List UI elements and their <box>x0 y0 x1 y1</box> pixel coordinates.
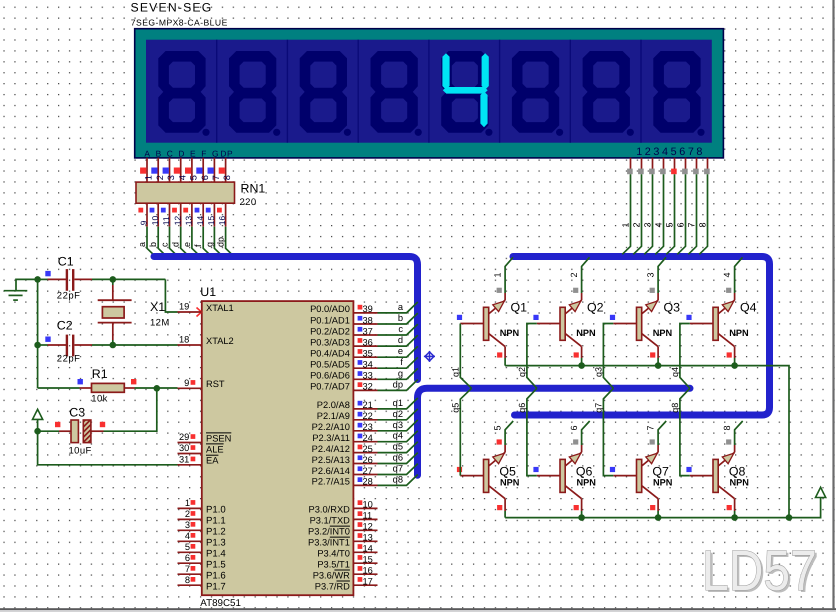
svg-text:C2: C2 <box>57 318 73 332</box>
transistor Q2 body bar <box>560 307 565 340</box>
transistor Q2 emitter arrow <box>569 301 581 312</box>
svg-text:ABCDEFG: ABCDEFG <box>144 148 224 158</box>
svg-text:P3.1/TXD: P3.1/TXD <box>310 516 351 526</box>
svg-text:31: 31 <box>179 454 189 464</box>
transistor Q5 emitter <box>489 452 505 466</box>
transistor Q7 emitter state marker <box>650 439 655 444</box>
transistor Q6 collector wire to rail <box>581 499 583 511</box>
wire net q4 from bus to Q4 base <box>680 324 690 389</box>
svg-text:P3.3/INT1: P3.3/INT1 <box>308 538 350 548</box>
wire net q3 from pin 23 to bus <box>378 420 418 431</box>
svg-text:10k: 10k <box>91 393 108 404</box>
svg-text:NPN: NPN <box>500 328 520 338</box>
svg-text:4: 4 <box>654 222 664 227</box>
transistor Q2 base state marker <box>533 315 538 320</box>
transistor Q2 collector wire to rail <box>581 347 583 358</box>
wire net 4 from display pin to bus <box>655 174 663 254</box>
transistor Q8 collector state marker <box>727 505 732 510</box>
svg-text:15: 15 <box>363 555 373 565</box>
svg-text:P0.4/AD4: P0.4/AD4 <box>310 349 350 359</box>
mcu U1 pin 7 P1.6 stub <box>178 573 202 575</box>
display digit pin 6 stub <box>685 158 687 169</box>
transistor Q7 emitter arrow <box>646 453 658 464</box>
wire net q3 from bus to Q3 base <box>603 324 613 389</box>
svg-text:36: 36 <box>363 337 373 347</box>
svg-text:10: 10 <box>150 216 160 226</box>
svg-text:6: 6 <box>185 553 190 563</box>
RN1 pin 12 state marker <box>172 208 177 213</box>
svg-text:Q6: Q6 <box>576 465 593 479</box>
wire net c from RN1 pin 11 to bus <box>170 227 178 256</box>
svg-text:Q7: Q7 <box>652 465 669 479</box>
wire net q2 from pin 22 to bus <box>378 409 418 420</box>
wire net q8 from bus to Q8 base <box>680 388 690 475</box>
transistor Q1 emitter state marker <box>497 288 502 293</box>
mcu U1 pin 26 state marker <box>358 455 363 460</box>
transistor Q5 body bar <box>484 459 489 492</box>
svg-text:14: 14 <box>195 216 205 226</box>
transistor Q1 base stub <box>460 323 483 325</box>
mcu U1 pin 19 XTAL1 stub <box>178 311 202 313</box>
mcu U1 pin 8 state marker <box>191 577 196 582</box>
wire power rail down to EA <box>38 431 178 465</box>
mcu U1 pin 2 P1.1 stub <box>178 518 202 520</box>
svg-text:5: 5 <box>185 542 190 552</box>
RN1 pin 4 state marker <box>174 168 180 174</box>
svg-text:q7: q7 <box>393 464 403 474</box>
mcu U1 pin 27 P2.6/A14 stub <box>353 474 377 476</box>
transistor Q8 emitter arrow <box>722 453 734 464</box>
junction Q4 collector <box>731 362 738 369</box>
transistor Q6 collector state marker <box>574 505 579 510</box>
wire net b from pin 38 to bus <box>378 313 418 324</box>
wire net dp from RN1 pin 16 to bus <box>226 227 234 256</box>
wire net c from pin 37 to bus <box>378 324 418 335</box>
power symbol VCC left <box>37 419 39 431</box>
display DS1 7SEG-MPX8-CA-BLUE body <box>135 29 724 158</box>
display digit pin 3 stub <box>652 158 654 169</box>
svg-text:LD57: LD57 <box>702 539 817 603</box>
svg-text:4: 4 <box>185 531 190 541</box>
mcu U1 pin 39 state marker <box>358 305 363 310</box>
bus digit-select 1-8 from display pins around to transistor emitters <box>513 257 770 416</box>
junction rail-rail <box>786 514 793 521</box>
mcu U1 pin 24 P2.3/A11 stub <box>353 441 377 443</box>
mcu U1 pin 28 state marker <box>358 477 363 482</box>
mcu U1 pin 4 state marker <box>191 533 196 538</box>
svg-text:P0.2/AD2: P0.2/AD2 <box>310 326 350 336</box>
display digit pin 2 stub <box>641 158 643 169</box>
svg-text:6: 6 <box>569 425 579 430</box>
svg-text:P2.4/A12: P2.4/A12 <box>312 444 350 454</box>
display digit 5 lit segment F <box>442 53 449 90</box>
wire net q7 from bus to Q7 base <box>603 388 613 475</box>
display segment pin F to RN1 pin 6 wire <box>202 158 204 183</box>
svg-text:RST: RST <box>206 379 225 389</box>
svg-text:8: 8 <box>722 425 732 430</box>
mcu U1 pin 34 state marker <box>358 360 363 365</box>
RN1 pin 2 state marker <box>151 168 157 174</box>
svg-text:b: b <box>148 242 158 247</box>
svg-text:24: 24 <box>363 433 373 443</box>
wire net q6 from bus to Q6 base <box>527 388 537 475</box>
display segment pin E to RN1 pin 5 wire <box>191 158 193 183</box>
RN1 pin 11 stub <box>169 203 171 226</box>
svg-text:22pF: 22pF <box>57 353 81 364</box>
wire net q6 from pin 26 to bus <box>378 453 418 464</box>
svg-text:7SEG-MPX8-CA-BLUE: 7SEG-MPX8-CA-BLUE <box>131 17 228 27</box>
display digit pin 5 stub <box>674 158 676 169</box>
wire net d from RN1 pin 12 to bus <box>181 227 189 256</box>
mcu U1 pin 37 state marker <box>358 327 363 332</box>
display digit pin 6 state marker <box>682 169 688 175</box>
display digit pin 2 state marker <box>638 169 644 175</box>
transistor Q8 base stub <box>690 475 713 477</box>
mcu U1 pin 28 P2.7/A15 stub <box>353 484 377 486</box>
mcu U1 pin 2 state marker <box>191 511 196 516</box>
svg-text:33: 33 <box>363 371 373 381</box>
transistor Q1 base state marker <box>457 315 462 320</box>
transistor Q3 emitter arrow <box>646 301 658 312</box>
transistor Q4 collector state marker <box>727 352 732 357</box>
svg-text:f: f <box>400 357 403 367</box>
mcu U1 pin 1 state marker <box>191 500 196 505</box>
transistor Q7 body bar <box>637 459 642 492</box>
transistor Q1 emitter wire to digit bus <box>504 293 506 300</box>
svg-text:Q8: Q8 <box>729 465 746 479</box>
wire net q8 from pin 28 to bus <box>378 475 418 486</box>
svg-text:P1.4: P1.4 <box>206 549 226 560</box>
mcu U1 pin 16 P3.6/WR stub <box>353 573 377 575</box>
mcu U1 pin 24 state marker <box>358 434 363 439</box>
display digit 7 unlit segments <box>583 51 634 136</box>
mcu U1 pin 38 state marker <box>358 316 363 321</box>
svg-text:12: 12 <box>172 216 182 226</box>
mcu U1 pin 26 P2.5/A13 stub <box>353 463 377 465</box>
svg-text:6: 6 <box>200 175 210 180</box>
svg-text:q2: q2 <box>517 367 527 377</box>
display digit 8 unlit segments <box>653 51 704 136</box>
RN1 pin 5 state marker <box>185 168 191 174</box>
svg-text:8: 8 <box>698 222 708 227</box>
transistor Q4 collector wire to rail <box>734 347 736 358</box>
svg-text:P0.3/AD3: P0.3/AD3 <box>310 337 350 347</box>
svg-text:d: d <box>171 242 181 247</box>
svg-text:P1.6: P1.6 <box>206 570 226 581</box>
mcu U1 pin 7 state marker <box>191 566 196 571</box>
wire collector rail bottom row to power <box>505 498 820 518</box>
mcu U1 pin 38 P0.1/AD1 stub <box>353 323 377 325</box>
mcu U1 pin 34 P0.5/AD5 stub <box>353 367 377 369</box>
svg-text:10uF: 10uF <box>69 446 92 457</box>
svg-text:ALE: ALE <box>206 444 224 454</box>
mcu U1 pin 15 state marker <box>358 555 363 560</box>
svg-text:16: 16 <box>217 216 227 226</box>
svg-text:2: 2 <box>185 509 190 519</box>
svg-text:P1.2: P1.2 <box>206 527 226 538</box>
mcu U1 pin 27 state marker <box>358 466 363 471</box>
mcu U1 pin 13 state marker <box>358 533 363 538</box>
transistor Q1 body bar <box>484 307 489 340</box>
svg-text:2: 2 <box>569 272 579 277</box>
display digit 5 lit segment G <box>443 87 488 94</box>
wire net q1 from pin 21 to bus <box>378 398 418 409</box>
wire RST junction down to C3 <box>104 388 157 431</box>
transistor Q2 emitter state marker <box>573 288 578 293</box>
svg-text:35: 35 <box>363 349 373 359</box>
svg-text:P3.2/INT0: P3.2/INT0 <box>308 527 350 537</box>
svg-text:P2.0/A8: P2.0/A8 <box>317 400 350 410</box>
display digit 1 unlit segments <box>158 51 209 136</box>
svg-text:P3.6/WR: P3.6/WR <box>313 570 350 580</box>
svg-text:30: 30 <box>179 443 189 453</box>
mcu U1 pin 9 state marker <box>191 380 196 385</box>
resistor R1 right state marker <box>131 379 136 384</box>
wire net q1 from bus to Q1 base <box>460 324 471 389</box>
svg-text:P3.7/RD: P3.7/RD <box>315 581 350 591</box>
junction Q2 collector <box>578 362 585 369</box>
mcu U1 pin 23 P2.2/A10 stub <box>353 430 377 432</box>
transistor Q4 emitter state marker <box>726 288 731 293</box>
svg-text:9: 9 <box>139 220 149 225</box>
transistor Q6 emitter <box>565 452 581 466</box>
svg-text:22pF: 22pF <box>57 291 81 302</box>
watermark LD57 <box>704 541 819 605</box>
svg-text:14: 14 <box>363 544 373 554</box>
RN1 pin 15 state marker <box>206 208 211 213</box>
transistor Q8 body bar <box>713 459 718 492</box>
mcu U1 pin 1 P1.0 stub <box>178 507 202 509</box>
svg-text:c: c <box>160 242 170 247</box>
mcu U1 pin 11 P3.1/TXD stub <box>353 518 377 520</box>
display segment pin A to RN1 pin 1 wire <box>146 158 148 183</box>
transistor Q4 collector <box>718 334 734 347</box>
svg-text:P1.3: P1.3 <box>206 538 226 549</box>
mcu U1 pin 25 P2.4/A12 stub <box>353 452 377 454</box>
svg-text:8: 8 <box>222 175 232 180</box>
svg-text:5: 5 <box>189 175 199 180</box>
mcu U1 pin 32 P0.7/AD7 stub <box>353 389 377 391</box>
mcu U1 pin 29 state marker <box>191 434 196 439</box>
svg-text:q6: q6 <box>393 453 403 463</box>
svg-text:q7: q7 <box>594 403 604 413</box>
svg-text:P3.5/T1: P3.5/T1 <box>317 559 350 569</box>
svg-text:7: 7 <box>687 222 697 227</box>
junction R1-RST-C3 <box>154 385 161 392</box>
svg-text:e: e <box>182 242 192 247</box>
display digit pin 8 stub <box>707 158 709 169</box>
transistor Q7 collector state marker <box>650 505 655 510</box>
transistor Q3 collector <box>642 334 658 347</box>
wire net 7 from display pin to bus <box>688 174 696 254</box>
svg-text:q3: q3 <box>594 367 604 377</box>
wire net f from pin 34 to bus <box>378 357 418 368</box>
transistor Q6 emitter state marker <box>573 439 578 444</box>
svg-text:7: 7 <box>185 564 190 574</box>
wire C1 to crystal node <box>92 278 165 280</box>
display segment pin D to RN1 pin 4 wire <box>180 158 182 183</box>
svg-text:q5: q5 <box>451 403 461 413</box>
transistor Q1 collector <box>489 334 505 347</box>
RN1 pin 14 state marker <box>195 208 200 213</box>
origin marker symbol <box>424 351 435 362</box>
transistor Q7 collector <box>642 486 658 499</box>
mcu U1 pin 3 state marker <box>191 522 196 527</box>
svg-text:a: a <box>137 242 147 247</box>
transistor Q5 base state marker <box>457 467 462 472</box>
junction C2-X1 <box>110 342 117 349</box>
wire net 6 from display pin to bus <box>677 174 685 254</box>
transistor Q7 base state marker <box>610 467 615 472</box>
svg-text:NPN: NPN <box>576 328 596 338</box>
display digit pin 7 stub <box>696 158 698 169</box>
capacitor C3 left state marker <box>55 422 60 427</box>
transistor Q2 base stub <box>537 323 560 325</box>
transistor Q4 body bar <box>713 307 718 340</box>
svg-text:XTAL1: XTAL1 <box>206 303 234 313</box>
wire C2 to XTAL2 <box>92 344 178 346</box>
svg-text:NPN: NPN <box>653 328 673 338</box>
svg-text:NPN: NPN <box>730 478 750 488</box>
display digit separator 5 <box>499 40 501 143</box>
wire net d from pin 36 to bus <box>378 335 418 346</box>
power symbol VCC right <box>816 487 826 497</box>
svg-text:19: 19 <box>179 302 189 312</box>
transistor Q5 collector wire to rail <box>504 499 506 511</box>
transistor Q7 collector wire to rail <box>657 499 659 511</box>
svg-text:18: 18 <box>179 335 189 345</box>
svg-text:23: 23 <box>363 422 373 432</box>
svg-text:21: 21 <box>363 400 373 410</box>
mcu U1 pin 18 XTAL2 stub <box>178 344 202 346</box>
svg-text:NPN: NPN <box>500 478 520 488</box>
transistor Q6 emitter arrow <box>569 453 581 464</box>
wire C3 to power rail <box>38 430 59 432</box>
svg-text:1: 1 <box>493 272 503 277</box>
svg-text:c: c <box>398 324 403 334</box>
svg-text:27: 27 <box>363 466 373 476</box>
wire net 8 from display pin to bus <box>699 174 707 254</box>
svg-text:P0.1/AD1: P0.1/AD1 <box>310 315 350 325</box>
transistor Q6 emitter wire to digit bus <box>581 445 583 452</box>
transistor Q6 base stub <box>537 475 560 477</box>
svg-text:P0.0/AD0: P0.0/AD0 <box>310 304 350 314</box>
svg-text:P2.3/A11: P2.3/A11 <box>312 433 350 443</box>
mcu U1 pin 10 state marker <box>358 500 363 505</box>
svg-text:q2: q2 <box>393 409 403 419</box>
svg-text:g: g <box>204 242 214 247</box>
svg-text:39: 39 <box>363 304 373 314</box>
svg-text:b: b <box>398 313 403 323</box>
svg-text:4: 4 <box>177 175 187 180</box>
svg-text:1: 1 <box>144 175 154 180</box>
transistor Q3 emitter state marker <box>650 288 655 293</box>
mcu U1 pin 11 state marker <box>358 511 363 516</box>
transistor Q3 collector state marker <box>650 352 655 357</box>
svg-text:13: 13 <box>363 533 373 543</box>
svg-text:P2.7/A15: P2.7/A15 <box>312 477 350 487</box>
svg-text:32: 32 <box>363 382 373 392</box>
svg-text:P0.7/AD7: P0.7/AD7 <box>310 382 350 392</box>
svg-text:12M: 12M <box>150 317 170 328</box>
transistor Q8 emitter <box>718 452 734 466</box>
mcu U1 pin 10 P3.0/RXD stub <box>353 507 377 509</box>
display digit separator 3 <box>357 40 359 143</box>
svg-text:q1: q1 <box>393 398 403 408</box>
svg-text:AT89C51: AT89C51 <box>200 598 241 609</box>
svg-text:g: g <box>398 368 403 378</box>
svg-text:RN1: RN1 <box>241 181 266 195</box>
RN1 pin 10 state marker <box>150 208 155 213</box>
wire net a from pin 39 to bus <box>378 302 418 313</box>
transistor Q5 collector state marker <box>497 505 502 510</box>
wire net a from RN1 pin 9 to bus <box>147 227 155 256</box>
RN1 pin 16 state marker <box>217 208 222 213</box>
transistor Q3 emitter wire to digit bus <box>657 293 659 300</box>
display digit 2 unlit segments <box>229 51 280 136</box>
RN1 pin 10 stub <box>157 203 159 226</box>
svg-text:P3.4/T0: P3.4/T0 <box>317 549 350 559</box>
svg-text:d: d <box>398 335 403 345</box>
transistor Q7 base stub <box>613 475 636 477</box>
display segment pin C to RN1 pin 3 wire <box>169 158 171 183</box>
mcu U1 pin 35 state marker <box>358 349 363 354</box>
transistor Q5 emitter wire to digit bus <box>504 445 506 452</box>
mcu U1 pin 13 P3.3/INT1 stub <box>353 540 377 542</box>
svg-text:q6: q6 <box>517 403 527 413</box>
mcu U1 pin 17 P3.7/RD stub <box>353 584 377 586</box>
wire to XTAL1 <box>165 279 177 312</box>
transistor Q3 emitter <box>642 300 658 314</box>
svg-text:15: 15 <box>206 216 216 226</box>
resistor R1 left state marker <box>78 379 83 384</box>
wire net g from RN1 pin 15 to bus <box>214 227 222 256</box>
svg-text:SEVEN-SEG: SEVEN-SEG <box>131 1 213 15</box>
capacitor C1 state marker <box>45 271 50 276</box>
wire net g from pin 33 to bus <box>378 368 418 379</box>
window bottom edge <box>0 608 836 610</box>
wire net dp from pin 32 to bus <box>378 380 418 391</box>
transistor Q4 base stub <box>690 323 713 325</box>
display digit pin 5 state marker <box>671 169 677 175</box>
svg-text:X1: X1 <box>150 300 165 314</box>
transistor Q1 collector state marker <box>497 352 502 357</box>
transistor Q2 collector <box>565 334 581 347</box>
mcu U1 pin 6 P1.5 stub <box>178 562 202 564</box>
svg-text:q1: q1 <box>451 367 461 377</box>
svg-text:26: 26 <box>363 455 373 465</box>
wire net f from RN1 pin 14 to bus <box>203 227 211 256</box>
svg-text:3: 3 <box>643 222 653 227</box>
transistor Q6 collector <box>565 486 581 499</box>
junction C2 left <box>34 342 41 349</box>
transistor Q4 base state marker <box>686 315 691 320</box>
display digit separator 1 <box>216 40 218 143</box>
mcu U1 pin 5 state marker <box>191 544 196 549</box>
mcu U1 pin 22 state marker <box>358 412 363 417</box>
transistor Q7 emitter wire to digit bus <box>657 445 659 452</box>
svg-text:25: 25 <box>363 444 373 454</box>
junction power-C3-EA <box>34 428 41 435</box>
svg-text:q4: q4 <box>393 431 403 441</box>
svg-text:12345678: 12345678 <box>636 146 705 158</box>
transistor Q3 base state marker <box>610 315 615 320</box>
mcu U1 pin 37 P0.2/AD2 stub <box>353 334 377 336</box>
display digit 5 lit segment B <box>482 53 489 90</box>
svg-text:P0.5/AD5: P0.5/AD5 <box>310 360 350 370</box>
RN1 pin 3 state marker <box>163 168 169 174</box>
mcu U1 pin 25 state marker <box>358 445 363 450</box>
